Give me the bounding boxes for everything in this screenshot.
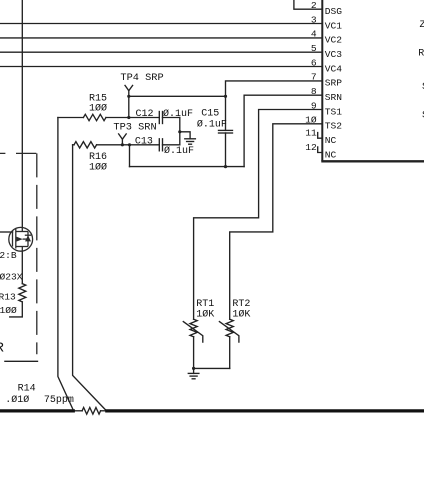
svg-text:TS1: TS1 — [325, 106, 343, 117]
svg-text:VC3: VC3 — [325, 49, 343, 60]
svg-text:Ø23X: Ø23X — [0, 271, 23, 282]
svg-text:NC: NC — [325, 149, 337, 160]
svg-text:Ø.1uF: Ø.1uF — [164, 145, 194, 157]
svg-text:VC2: VC2 — [325, 35, 343, 46]
svg-text:12: 12 — [305, 142, 317, 153]
svg-text:9: 9 — [311, 100, 317, 111]
svg-text:VC1: VC1 — [325, 20, 343, 31]
svg-text:C15: C15 — [201, 109, 219, 120]
svg-text:6: 6 — [311, 57, 317, 68]
svg-text:RT2: RT2 — [232, 299, 250, 310]
svg-text:TP4 SRP: TP4 SRP — [120, 72, 163, 84]
svg-text:VC4: VC4 — [325, 63, 343, 74]
svg-text:2:B: 2:B — [0, 250, 17, 261]
svg-text:1ØK: 1ØK — [196, 309, 214, 321]
svg-text:1ØØ: 1ØØ — [89, 103, 107, 115]
svg-text:SRP: SRP — [325, 78, 343, 89]
svg-text:.Ø1Ø: .Ø1Ø — [5, 394, 29, 406]
svg-text:11: 11 — [305, 128, 317, 139]
svg-text:75ppm: 75ppm — [44, 395, 74, 406]
svg-text:R: R — [0, 341, 5, 357]
svg-text:8: 8 — [311, 86, 317, 97]
svg-text:RT1: RT1 — [196, 299, 214, 310]
svg-text:TP3 SRN: TP3 SRN — [113, 122, 156, 134]
svg-text:1ØØ: 1ØØ — [89, 161, 107, 173]
svg-text:TS2: TS2 — [325, 121, 343, 132]
svg-text:Ø.1uF: Ø.1uF — [197, 118, 227, 130]
svg-text:7: 7 — [311, 72, 317, 83]
svg-text:1Ø: 1Ø — [305, 115, 317, 126]
svg-text:1ØK: 1ØK — [232, 309, 250, 321]
svg-text:Z: Z — [420, 20, 424, 31]
svg-text:C12: C12 — [136, 109, 154, 120]
svg-text:DSG: DSG — [325, 6, 343, 17]
svg-text:R14: R14 — [18, 384, 36, 395]
svg-text:Ø.1uF: Ø.1uF — [163, 108, 193, 120]
svg-text:C13: C13 — [135, 137, 153, 148]
svg-text:R13: R13 — [0, 292, 16, 303]
svg-text:5: 5 — [311, 43, 317, 54]
svg-text:R: R — [418, 48, 424, 59]
svg-text:2: 2 — [311, 0, 317, 11]
svg-text:1ØØ: 1ØØ — [0, 305, 17, 316]
svg-text:NC: NC — [325, 135, 337, 146]
svg-text:4: 4 — [311, 29, 317, 40]
svg-text:SRN: SRN — [325, 92, 342, 103]
svg-text:3: 3 — [311, 14, 317, 25]
